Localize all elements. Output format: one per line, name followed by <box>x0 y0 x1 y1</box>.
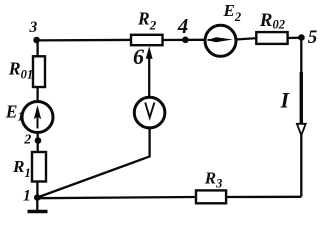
svg-text:4: 4 <box>177 14 189 38</box>
svg-text:2: 2 <box>23 132 31 147</box>
svg-text:1: 1 <box>23 188 31 205</box>
svg-text:6: 6 <box>133 44 144 69</box>
svg-text:I: I <box>280 88 291 113</box>
svg-text:5: 5 <box>308 27 318 48</box>
svg-text:3: 3 <box>29 19 38 36</box>
